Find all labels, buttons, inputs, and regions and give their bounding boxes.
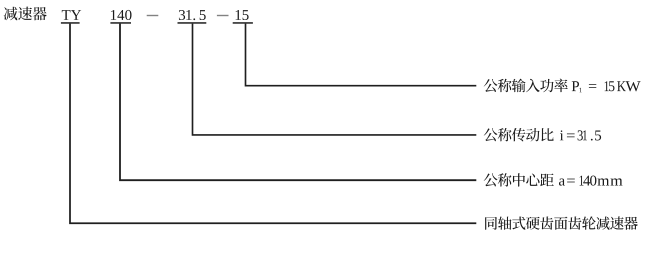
label symbol P (572, 81, 579, 91)
label symbol i (560, 130, 564, 140)
leader line from 15 to input-power label (246, 24, 477, 86)
dash separator 1 (147, 15, 159, 17)
title text 减速器 (4, 7, 47, 21)
label text 公称中心距 (484, 173, 554, 186)
leader line from 140 to centre-distance label (120, 24, 476, 181)
equals sign row3 (567, 179, 575, 183)
model code TY (62, 10, 81, 20)
value 15KW (605, 81, 641, 91)
underline under TY (61, 22, 80, 24)
equals sign row1 (589, 84, 596, 88)
model number 15 (236, 10, 249, 20)
underline under 140 (110, 22, 131, 24)
leader line from 31.5 to ratio label (193, 24, 477, 135)
value 140mm (580, 176, 623, 186)
label symbol a (559, 178, 565, 185)
equals sign row2 (567, 133, 575, 137)
subscript 1 (579, 88, 581, 92)
label text 公称传动比 (484, 128, 554, 141)
model number 140 (111, 10, 132, 20)
underline under 31.5 (178, 22, 207, 24)
model number 31.5 (179, 10, 206, 20)
leader line from TY to reducer-type label (70, 24, 476, 224)
dash separator 2 (217, 15, 229, 17)
label text 同轴式硬齿面齿轮减速器 (485, 216, 638, 229)
value 31.5 (578, 130, 602, 140)
label text 公称输入功率 (484, 79, 568, 93)
underline under 15 (233, 22, 253, 24)
